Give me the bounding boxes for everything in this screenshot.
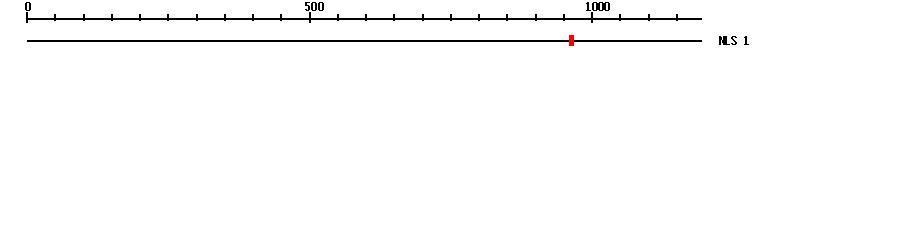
minor tick 800 (478, 14, 480, 21)
minor tick 550 (337, 14, 339, 21)
minor tick 50 (54, 14, 56, 21)
ruler label 0 (25, 2, 31, 11)
ruler label 1000 (586, 2, 610, 11)
major tick 500 (309, 12, 311, 23)
minor tick 1100 (648, 14, 650, 21)
minor tick 200 (139, 14, 141, 21)
minor tick 250 (167, 14, 169, 21)
minor tick 700 (422, 14, 424, 21)
minor tick 400 (252, 14, 254, 21)
protein backbone line (27, 40, 702, 42)
feature marker NLS 1 (red box) (569, 35, 574, 46)
background (0, 0, 900, 58)
minor tick 450 (280, 14, 282, 21)
minor tick 1150 (676, 14, 678, 21)
ruler label 500 (305, 2, 324, 11)
minor tick 600 (365, 14, 367, 21)
minor tick 100 (83, 14, 85, 21)
feature label NLS 1 (719, 36, 749, 45)
minor tick 300 (196, 14, 198, 21)
minor tick 350 (224, 14, 226, 21)
minor tick 900 (535, 14, 537, 21)
major tick 1000 (591, 12, 593, 23)
ruler axis line (26, 18, 702, 20)
minor tick 150 (111, 14, 113, 21)
minor tick 750 (450, 14, 452, 21)
minor tick 950 (563, 14, 565, 21)
major tick 0 (26, 12, 28, 23)
minor tick 650 (393, 14, 395, 21)
minor tick 850 (506, 14, 508, 21)
minor tick 1050 (619, 14, 621, 21)
